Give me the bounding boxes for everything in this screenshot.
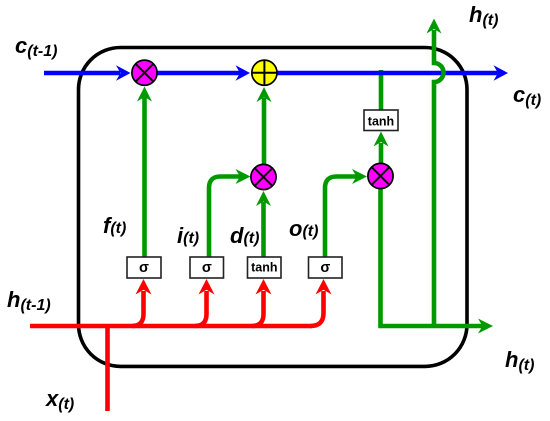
svg-text:x(t): x(t) <box>45 386 74 413</box>
wire: red branch up to sigma f <box>132 291 144 326</box>
arrow: blue into add node <box>236 65 251 81</box>
svg-text:tanh: tanh <box>368 115 394 129</box>
arrow: green into multiply o from left <box>352 169 367 184</box>
wire: blue between multiply and add <box>157 71 240 76</box>
wire: green f gate vertical <box>142 97 147 257</box>
wire: green multiply o up to tanh box <box>379 143 384 163</box>
box: sigma f <box>127 257 161 278</box>
svg-text:h(t-1): h(t-1) <box>7 287 51 314</box>
arrow: green h(t) output right <box>478 319 493 334</box>
wire: red x(t) vertical input <box>105 326 110 411</box>
wire: red branch up to tanh d <box>252 291 264 326</box>
arrow: green into multiply f <box>137 87 152 102</box>
node: multiply d (magenta circle with X) <box>251 164 276 189</box>
svg-text:o(t): o(t) <box>289 216 318 241</box>
svg-text:σ: σ <box>202 260 212 276</box>
arrow: green into add node <box>257 87 272 102</box>
svg-text:h(t): h(t) <box>505 347 534 374</box>
box: tanh output <box>364 110 398 131</box>
svg-text:h(t): h(t) <box>469 2 498 29</box>
svg-text:d(t): d(t) <box>230 223 259 248</box>
arrow: red into sigma f <box>136 279 152 295</box>
arrow: blue c(t) output <box>494 65 509 81</box>
wire: blue c(t-1) line into cell <box>44 71 120 76</box>
svg-text:σ: σ <box>139 260 149 276</box>
svg-text:f(t): f(t) <box>103 213 126 238</box>
wire: green h(t) branch up with hop over c line <box>434 30 444 326</box>
svg-text:c(t): c(t) <box>513 82 541 109</box>
wire: red h(t-1) horizontal input line <box>30 324 312 329</box>
arrow: green into multiply d from left <box>236 169 251 184</box>
box: sigma i <box>190 257 224 278</box>
svg-text:c(t-1): c(t-1) <box>15 33 57 60</box>
wire: red turn up to sigma o <box>311 291 324 326</box>
node: add (yellow circle with plus) <box>252 60 277 85</box>
arrow: red into tanh d <box>256 279 272 295</box>
box: sigma o <box>309 257 343 278</box>
wire: green d gate vertical <box>261 202 266 257</box>
wire: green o gate curve to multiply o <box>325 177 357 258</box>
arrow: green into multiply d from below <box>256 191 271 206</box>
arrow: red into sigma i <box>199 279 215 295</box>
node: multiply o (magenta circle with X) <box>368 163 393 188</box>
box: tanh d <box>248 257 282 278</box>
wire: blue c(t) line out of cell <box>276 71 498 76</box>
arrow: green into tanh box <box>374 132 389 147</box>
cell body (rounded rectangle) <box>79 48 468 367</box>
arrow: red into sigma o <box>316 279 332 295</box>
wire: green h(t) from multiply o down and right <box>381 189 484 326</box>
wire: red branch up to sigma i <box>195 291 207 326</box>
svg-text:i(t): i(t) <box>177 223 199 248</box>
node: multiply f (magenta circle with X) <box>132 60 157 85</box>
arrow: green h(t) output top <box>427 19 442 34</box>
svg-text:σ: σ <box>320 260 330 276</box>
svg-text:tanh: tanh <box>251 261 277 275</box>
wire: green tanh output to c line <box>379 70 384 110</box>
wire: green i gate curve to multiply d <box>209 177 240 258</box>
arrow: blue into multiply f <box>116 65 131 81</box>
wire: green multiply d to add node <box>262 98 267 165</box>
